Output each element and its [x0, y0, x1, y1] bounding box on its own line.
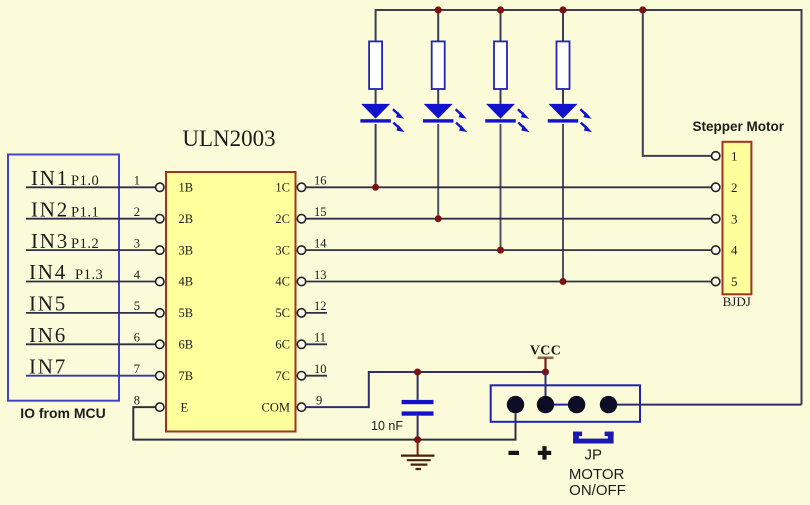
- connector stepper motor body: [723, 142, 752, 294]
- label minus: [509, 451, 520, 455]
- svg-text:1: 1: [134, 174, 140, 188]
- wire LED D4 cathode to node 4C: [562, 124, 564, 282]
- wire top VCC rail: [376, 10, 802, 405]
- svg-text:IN1: IN1: [31, 166, 69, 190]
- pin circle 6B: [156, 340, 164, 348]
- wire 1C to stepper pin2: [306, 186, 712, 188]
- svg-text:3B: 3B: [179, 243, 194, 257]
- svg-text:2C: 2C: [275, 212, 290, 226]
- svg-text:4C: 4C: [275, 275, 290, 289]
- svg-text:7B: 7B: [179, 369, 194, 383]
- junction dot rail-R4: [559, 6, 566, 13]
- wire 6C stub: [306, 343, 327, 345]
- svg-text:4: 4: [731, 243, 738, 258]
- wire IN5 to pin5: [26, 312, 156, 314]
- junction dot node 2C LED D2: [435, 215, 442, 222]
- junction dot cap top: [414, 369, 421, 376]
- svg-text:5C: 5C: [275, 306, 290, 320]
- svg-text:5: 5: [731, 274, 738, 289]
- LED D2: [423, 104, 467, 132]
- JP pin 4 pad: [600, 396, 617, 413]
- svg-text:IN7: IN7: [29, 354, 67, 378]
- svg-text:IN3: IN3: [31, 229, 69, 253]
- op-amp U1 ULN2003 body: [166, 172, 296, 432]
- jumper bracket symbol: [573, 432, 614, 444]
- svg-text:3: 3: [731, 211, 738, 226]
- wire stepper pin1 feed: [643, 10, 712, 156]
- svg-text:3C: 3C: [275, 243, 290, 257]
- junction dot VCC node: [542, 369, 549, 376]
- wire 7C stub: [306, 375, 327, 377]
- stepper pin 5 circle: [712, 277, 720, 285]
- svg-text:JP: JP: [585, 447, 603, 464]
- wire JP pin2-pin3 jumper link: [546, 404, 577, 406]
- wire IN2 to pin2: [26, 218, 156, 220]
- JP pin 1 pad: [507, 396, 524, 413]
- stepper pin 2 circle: [712, 183, 720, 191]
- svg-text:10 nF: 10 nF: [371, 419, 403, 433]
- ground: [401, 440, 435, 469]
- pin circle COM: [297, 403, 305, 411]
- LED D1: [360, 104, 404, 132]
- wire COM to VCC node: [306, 372, 546, 407]
- junction dot node 4C LED D4: [560, 278, 567, 285]
- pin circle 7C: [297, 372, 305, 380]
- pin circle 4C: [297, 277, 305, 285]
- stepper pin 3 circle: [712, 215, 720, 223]
- junction dot rail-stepper feed: [639, 6, 646, 13]
- junction dot node 1C LED D1: [372, 184, 379, 191]
- svg-text:7C: 7C: [275, 369, 290, 383]
- wire LED D1 cathode to node 1C: [375, 124, 377, 187]
- svg-text:BJDJ: BJDJ: [723, 294, 751, 309]
- svg-text:11: 11: [314, 331, 326, 345]
- resistor R4: [557, 41, 570, 104]
- wire IN7 to pin7: [26, 375, 156, 377]
- wire LED D2 cathode to node 2C: [437, 124, 439, 219]
- svg-text:2: 2: [731, 180, 738, 195]
- wire resistor R2 top lead: [437, 10, 439, 41]
- junction dot rail-R3: [497, 6, 504, 13]
- svg-text:2B: 2B: [179, 212, 194, 226]
- capacitor C1: [402, 372, 434, 440]
- pin circle 1B: [156, 183, 164, 191]
- resistor R3: [494, 41, 507, 104]
- wire E pin to ground rail: [133, 407, 515, 440]
- svg-text:15: 15: [314, 205, 327, 219]
- svg-text:10: 10: [314, 362, 327, 376]
- junction dot rail-R2: [435, 6, 442, 13]
- LED D4: [548, 104, 592, 132]
- svg-text:COM: COM: [262, 400, 290, 414]
- svg-text:ON/OFF: ON/OFF: [569, 482, 626, 499]
- wire LED D3 cathode to node 3C: [500, 124, 502, 250]
- pin circle 3B: [156, 246, 164, 254]
- wire 4C to stepper pin5: [306, 281, 712, 283]
- pin circle E: [156, 403, 164, 411]
- pin circle 4B: [156, 277, 164, 285]
- svg-text:6C: 6C: [275, 338, 290, 352]
- svg-text:3: 3: [134, 236, 140, 250]
- connector JP box: [491, 385, 640, 422]
- wire IN1 to pin1: [26, 186, 156, 188]
- svg-text:7: 7: [134, 362, 140, 376]
- svg-text:12: 12: [314, 299, 327, 313]
- svg-text:1C: 1C: [275, 181, 290, 195]
- svg-text:VCC: VCC: [530, 344, 561, 359]
- svg-text:IO from MCU: IO from MCU: [20, 405, 106, 421]
- stepper pin 4 circle: [712, 246, 720, 254]
- wire JP pin4 to right rail: [609, 404, 802, 406]
- svg-text:5B: 5B: [179, 306, 194, 320]
- pin circle 3C: [297, 246, 305, 254]
- wire IN4 to pin4: [26, 281, 156, 283]
- svg-text:6: 6: [134, 331, 140, 345]
- wire IN6 to pin6: [26, 343, 156, 345]
- IO from MCU box: [8, 155, 119, 401]
- svg-text:E: E: [181, 400, 189, 414]
- svg-text:4: 4: [134, 268, 141, 282]
- pin circle 2C: [297, 215, 305, 223]
- svg-text:14: 14: [314, 236, 327, 250]
- svg-text:13: 13: [314, 268, 327, 282]
- svg-text:IN2: IN2: [31, 197, 69, 221]
- wire resistor R3 top lead: [500, 10, 502, 41]
- svg-text:5: 5: [134, 299, 140, 313]
- svg-text:8: 8: [134, 393, 140, 407]
- wire resistor R4 top lead: [562, 10, 564, 41]
- wire 3C to stepper pin4: [306, 249, 712, 251]
- pin circle 6C: [297, 340, 305, 348]
- resistor R1: [369, 41, 382, 104]
- JP pin 2 pad: [537, 396, 554, 413]
- svg-text:1: 1: [731, 149, 738, 164]
- JP pin 3 pad: [568, 396, 585, 413]
- wire VCC node to JP pin2: [545, 372, 547, 396]
- wire IN3 to pin3: [26, 249, 156, 251]
- label plus: [538, 446, 551, 459]
- pin circle 2B: [156, 215, 164, 223]
- wire 5C stub: [306, 312, 327, 314]
- svg-text:ULN2003: ULN2003: [182, 126, 275, 151]
- svg-text:1B: 1B: [179, 181, 194, 195]
- svg-text:Stepper Motor: Stepper Motor: [693, 119, 785, 134]
- wire 2C to stepper pin3: [306, 218, 712, 220]
- stepper pin 1 circle: [712, 152, 720, 160]
- svg-text:4B: 4B: [179, 275, 194, 289]
- pin circle 5B: [156, 309, 164, 317]
- resistor R2: [432, 41, 445, 104]
- svg-text:2: 2: [134, 205, 140, 219]
- LED D3: [485, 104, 529, 132]
- svg-text:6B: 6B: [179, 338, 194, 352]
- pin circle 5C: [297, 309, 305, 317]
- junction dot node 3C LED D3: [497, 247, 504, 254]
- pin circle 1C: [297, 183, 305, 191]
- junction dot cap bottom: [414, 436, 421, 443]
- svg-text:16: 16: [314, 174, 327, 188]
- svg-text:MOTOR: MOTOR: [569, 466, 625, 483]
- pin circle 7B: [156, 372, 164, 380]
- power VCC: [530, 344, 561, 373]
- svg-text:9: 9: [316, 393, 322, 407]
